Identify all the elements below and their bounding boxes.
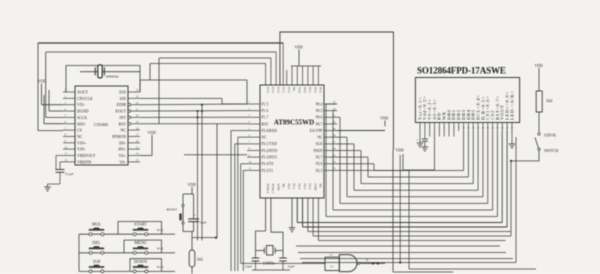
svg-text:22pF: 22pF [288, 265, 295, 269]
svg-text:RST: RST [262, 122, 270, 126]
svg-text:GND: GND [313, 184, 317, 192]
svg-text:P1.1: P1.1 [282, 87, 286, 93]
svg-text:P2.1: P2.1 [292, 184, 296, 190]
svg-text:IIN-: IIN- [119, 140, 127, 145]
svg-text:P2.2: P2.2 [297, 184, 301, 190]
svg-text:P2.5: P2.5 [316, 169, 323, 173]
svg-text:GND: GND [276, 184, 280, 192]
svg-text:P2.3: P2.3 [303, 184, 307, 190]
svg-text:12MHz: 12MHz [263, 261, 275, 266]
svg-text:P3.1/TXD: P3.1/TXD [262, 142, 278, 146]
svg-text:SCLK: SCLK [77, 115, 87, 120]
svg-text:PFMON: PFMON [112, 134, 126, 139]
svg-text:XOUT: XOUT [77, 90, 89, 95]
svg-text:VIN-: VIN- [77, 147, 86, 152]
svg-text:22pF: 22pF [245, 265, 252, 269]
svg-text:VDD: VDD [396, 149, 404, 153]
svg-text:P1.4: P1.4 [266, 87, 270, 93]
svg-text:CPUCLK: CPUCLK [77, 96, 93, 101]
svg-text:RST: RST [119, 121, 127, 126]
svg-text:P2.0: P2.0 [287, 184, 291, 190]
svg-text:VDD: VDD [380, 117, 388, 121]
svg-text:NC: NC [317, 136, 323, 140]
svg-text:LED-0L: LED-0L [544, 133, 557, 137]
svg-text:XTAL1: XTAL1 [271, 184, 275, 194]
svg-text:TOP: TOP [93, 259, 102, 264]
svg-text:MUL: MUL [92, 222, 102, 227]
svg-text:P3.3/INT1: P3.3/INT1 [262, 156, 278, 160]
svg-text:1kΩ: 1kΩ [546, 99, 553, 103]
svg-text:NC: NC [77, 134, 83, 139]
svg-text:P0.6: P0.6 [316, 116, 323, 120]
svg-text:P0.4: P0.4 [316, 102, 323, 106]
svg-text:P1.0: P1.0 [157, 265, 164, 269]
svg-text:P0.7: P0.7 [316, 122, 323, 126]
svg-text:VDD: VDD [295, 46, 303, 50]
svg-text:P1.5: P1.5 [262, 102, 269, 106]
svg-text:0.1µF: 0.1µF [66, 172, 74, 176]
svg-text:VREFIN: VREFIN [77, 159, 92, 164]
svg-text:P1.1: P1.1 [157, 247, 164, 251]
svg-text:SDI: SDI [120, 96, 127, 101]
svg-text:DGND: DGND [77, 109, 89, 114]
svg-text:P0.0: P0.0 [303, 87, 307, 93]
svg-text:VA-: VA- [119, 159, 126, 164]
svg-text:VA+: VA+ [118, 153, 126, 158]
svg-text:START: START [134, 222, 147, 227]
svg-text:P1.6: P1.6 [262, 109, 269, 113]
svg-text:DEL: DEL [92, 240, 101, 245]
svg-text:P2.7: P2.7 [316, 156, 323, 160]
svg-text:P1.2: P1.2 [157, 228, 164, 232]
svg-text:P2.6: P2.6 [316, 162, 323, 166]
svg-text:SWITCH: SWITCH [544, 149, 558, 153]
svg-text:P1.3: P1.3 [271, 87, 275, 93]
svg-text:ALE: ALE [315, 142, 323, 146]
svg-text:IIN+: IIN+ [118, 147, 127, 152]
svg-text:CS: CS [77, 128, 82, 133]
svg-text:XTAL2: XTAL2 [266, 184, 270, 194]
svg-text:10µF: 10µF [199, 221, 206, 225]
svg-text:SO12864FPD-17ASWE: SO12864FPD-17ASWE [417, 66, 506, 76]
svg-text:P3.5/T1: P3.5/T1 [262, 169, 274, 173]
svg-text:MENU: MENU [134, 240, 146, 245]
svg-text:VREFOUT: VREFOUT [77, 153, 96, 158]
svg-text:EDIR: EDIR [117, 102, 127, 107]
svg-text:VDD: VDD [188, 183, 196, 187]
svg-text:P3.2/INT0: P3.2/INT0 [262, 149, 278, 153]
svg-text:P0.1: P0.1 [308, 87, 312, 93]
svg-text:VCC: VCC [297, 87, 301, 94]
svg-text:SDO: SDO [77, 121, 85, 126]
svg-text:P0.2: P0.2 [313, 87, 317, 93]
svg-text:VDD: VDD [148, 131, 156, 135]
svg-text:+: + [416, 138, 418, 142]
svg-text:VIN+: VIN+ [77, 140, 87, 145]
svg-text:P3.0/RXD: P3.0/RXD [262, 129, 278, 133]
svg-text:AT89C55WD: AT89C55WD [274, 119, 314, 127]
svg-text:VD+: VD+ [77, 102, 86, 107]
svg-text:XIN: XIN [119, 90, 126, 95]
svg-text:VDD: VDD [535, 64, 543, 68]
svg-text:NC: NC [262, 136, 268, 140]
svg-text:P1.2: P1.2 [276, 87, 280, 93]
svg-text:P0.5: P0.5 [316, 109, 323, 113]
svg-text:INT: INT [119, 115, 126, 120]
svg-text:LED-<A/K>: LED-<A/K> [509, 90, 514, 120]
svg-text:EOUT: EOUT [115, 109, 126, 114]
svg-text:VDD: VDD [38, 80, 46, 84]
svg-text:PSEN: PSEN [313, 149, 322, 153]
svg-text:P1.7: P1.7 [262, 116, 269, 120]
svg-text:RESET: RESET [167, 208, 179, 212]
svg-text:+: + [194, 214, 196, 218]
svg-text:NC: NC [282, 184, 286, 188]
svg-text:P1.0: P1.0 [287, 87, 291, 93]
svg-text:1kΩ: 1kΩ [197, 258, 204, 262]
svg-text:4096KHz: 4096KHz [106, 75, 120, 79]
svg-text:P0.3: P0.3 [319, 87, 323, 93]
svg-text:DOWN: DOWN [134, 259, 147, 264]
svg-text:P3.4/T0: P3.4/T0 [262, 162, 274, 166]
svg-text:NC: NC [292, 87, 296, 91]
svg-text:P2.4: P2.4 [308, 184, 312, 190]
svg-text:EA/VPP: EA/VPP [310, 129, 323, 133]
svg-text:NC: NC [120, 128, 126, 133]
svg-text:CS5460: CS5460 [94, 122, 109, 127]
svg-text:NC: NC [319, 184, 323, 188]
